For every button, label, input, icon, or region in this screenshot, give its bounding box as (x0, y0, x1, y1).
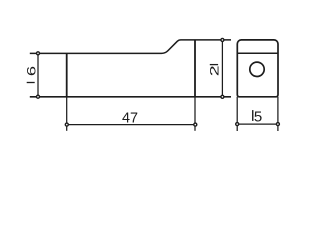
main view bottom edge (with extension overshoots) (30, 96, 231, 98)
dim dot 47 right (194, 123, 197, 126)
main view right edge (194, 40, 196, 97)
side view rounded body (237, 40, 278, 97)
extension below side view left for 15 (236, 97, 238, 131)
dimension line 21 (221, 40, 223, 97)
extension line below left edge for 47 (66, 97, 68, 131)
dim dot 47 left (65, 123, 68, 126)
extension below side view right for 15 (277, 97, 279, 131)
svg-text:5: 5 (254, 108, 262, 125)
dimension line 16 (37, 53, 39, 96)
svg-text:6: 6 (25, 66, 38, 76)
dim dot 15 left (236, 123, 239, 126)
svg-text:47: 47 (122, 110, 138, 126)
label 21: digit 1 drawn as bar (210, 64, 218, 66)
dim dot 15 right (276, 123, 279, 126)
dimension line 47 (67, 124, 196, 126)
side view shoulder line (237, 52, 278, 54)
dim dot 16 top (37, 52, 40, 55)
svg-text:2: 2 (208, 65, 222, 76)
dim dot 16 bottom (37, 95, 40, 98)
main view left edge (66, 53, 68, 96)
dim dot 21 top (221, 38, 224, 41)
extension line below right edge for 47 (194, 97, 196, 131)
label 16: digit 1 drawn as bar (27, 82, 35, 84)
label 15: digit 1 drawn as bar (252, 110, 254, 121)
hook profile main view: top edge with S-curve rise (30, 40, 231, 54)
dim dot 21 bottom (221, 95, 224, 98)
side view hole circle (250, 62, 264, 76)
dimension line 15 (237, 123, 278, 125)
